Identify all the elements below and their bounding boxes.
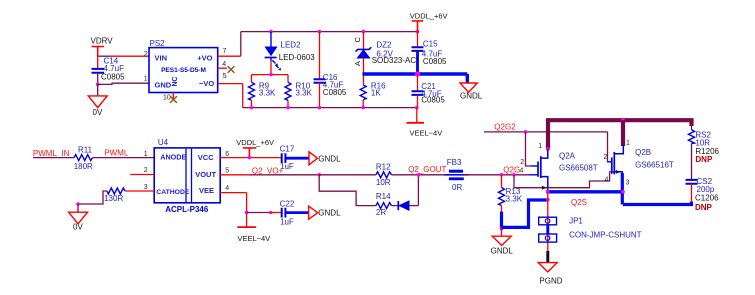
svg-text:3.3K: 3.3K xyxy=(296,89,313,98)
wire Q2B source thick xyxy=(621,173,624,205)
wire 130R to ground xyxy=(78,191,107,204)
svg-text:2: 2 xyxy=(144,51,148,58)
opto gate driver U4 ACPL-P346 xyxy=(154,138,220,214)
wire U4 pin2 stub xyxy=(130,174,154,176)
ground GNDL under R13 xyxy=(491,229,514,256)
svg-text:1: 1 xyxy=(144,151,148,158)
svg-text:C0805: C0805 xyxy=(421,96,445,105)
node R13 junction xyxy=(500,173,504,177)
svg-text:2R: 2R xyxy=(376,208,386,217)
wire Q2_VO to R12 xyxy=(319,174,376,176)
node Q2S left junction xyxy=(546,190,550,194)
svg-text:2: 2 xyxy=(144,167,148,174)
LED LED2 xyxy=(265,32,316,71)
svg-text:PGND: PGND xyxy=(539,277,562,286)
svg-text:Q2_VO+: Q2_VO+ xyxy=(252,166,284,175)
svg-text:3.3K: 3.3K xyxy=(506,195,523,204)
wire top VDDL rail xyxy=(241,31,418,33)
svg-text:R12: R12 xyxy=(376,162,391,171)
svg-text:NC: NC xyxy=(172,76,179,86)
svg-text:0V: 0V xyxy=(73,223,83,232)
svg-text:JP1: JP1 xyxy=(569,217,583,226)
svg-text:PES1-S5-D5-M: PES1-S5-D5-M xyxy=(161,67,206,74)
svg-text:VEEL−4V: VEEL−4V xyxy=(410,128,443,137)
svg-text:4: 4 xyxy=(222,61,226,68)
DC/DC module PS2 PES1-S5-D5-M xyxy=(149,39,218,92)
wire thick drain rail xyxy=(548,120,692,126)
svg-text:6: 6 xyxy=(225,151,229,158)
svg-text:GS66508T: GS66508T xyxy=(559,163,598,172)
wire PWML_IN to R11 xyxy=(33,157,74,159)
wire PS2 GND to C14 xyxy=(98,83,149,84)
node C14/GND junction xyxy=(96,83,100,87)
svg-text:1: 1 xyxy=(144,76,148,83)
node C16 rail junction xyxy=(318,106,322,110)
svg-text:130R: 130R xyxy=(104,194,123,203)
node R10 rail junction xyxy=(286,106,290,110)
svg-text:LED-0603: LED-0603 xyxy=(279,53,316,62)
ground GNDL top xyxy=(460,83,483,101)
pin 10 no-connect stub and X xyxy=(170,93,177,103)
node riser junction xyxy=(417,173,421,177)
svg-text:DNP: DNP xyxy=(695,203,713,212)
node C16 rail junction xyxy=(318,30,322,34)
wire Q2S thick rail xyxy=(546,190,623,193)
svg-text:VDDL_+6V: VDDL_+6V xyxy=(236,138,274,147)
svg-text:0R: 0R xyxy=(452,183,462,192)
power VEEL-4V top section xyxy=(407,108,443,138)
svg-text:SOD323-AC: SOD323-AC xyxy=(372,56,417,65)
capacitor CS2 200p snubber xyxy=(686,177,720,212)
capacitor C22 1uF xyxy=(280,200,295,227)
wire U4 pin4 VEE xyxy=(220,193,246,228)
resistor RS2 10R snubber xyxy=(689,124,720,180)
svg-text:C0805: C0805 xyxy=(101,73,125,82)
svg-text:1K: 1K xyxy=(371,89,381,98)
ferrite bead FB3 0R xyxy=(444,158,468,192)
svg-text:C1206: C1206 xyxy=(695,194,719,203)
resistor R10 3.3K xyxy=(285,82,313,108)
wire VEEL bottom rail xyxy=(243,107,417,109)
capacitor C16 4.7uF xyxy=(314,32,347,108)
capacitor C17 1uF xyxy=(280,145,295,172)
arrow on Q2B source sense xyxy=(616,170,621,174)
diode at R14 xyxy=(392,201,419,210)
wire R11 to U4 pin1 xyxy=(93,157,155,159)
svg-text:PWML: PWML xyxy=(104,148,129,157)
node Q2S right junction xyxy=(621,190,625,194)
wire LED to R9/R10 bus xyxy=(270,61,272,74)
svg-text:C: C xyxy=(353,37,362,43)
svg-text:GNDL: GNDL xyxy=(491,247,514,256)
node Q2B drain junction xyxy=(621,118,625,122)
ground GNDL arrow lower xyxy=(309,206,341,219)
svg-text:7: 7 xyxy=(223,48,227,55)
svg-text:Q2A: Q2A xyxy=(559,152,576,161)
power VDDL_+6V top xyxy=(410,12,448,32)
wire Q2G2 to Q2A pin2 xyxy=(526,132,532,166)
wire Q2G2 xyxy=(484,131,608,133)
node Q2_VO branch junction xyxy=(317,173,321,177)
resistor R12 10R xyxy=(376,162,392,187)
svg-text:5: 5 xyxy=(223,73,227,80)
svg-text:A: A xyxy=(353,61,362,66)
resistor R14 2R xyxy=(376,192,392,217)
svg-text:Q2G: Q2G xyxy=(503,166,520,175)
svg-text:CON-JMP-CSHUNT: CON-JMP-CSHUNT xyxy=(569,231,642,240)
node 0V junction xyxy=(76,202,80,206)
wire U4 pin5 VOUT xyxy=(220,174,250,176)
svg-text:VIN: VIN xyxy=(155,53,168,62)
node JP1 branch junction xyxy=(546,198,550,202)
wire C22 to GNDL arrow xyxy=(285,211,308,214)
svg-text:1: 1 xyxy=(538,143,542,150)
transistor Q2A GS66508T xyxy=(529,149,598,192)
node Q2A drain junction xyxy=(546,147,550,151)
wire Q2G2 to Q2B pin2 xyxy=(608,132,609,162)
power VEEL-4V mini xyxy=(237,227,270,243)
svg-text:4: 4 xyxy=(605,177,609,184)
svg-text:2: 2 xyxy=(604,154,608,161)
transistor Q2B GS66516T xyxy=(608,145,674,179)
svg-text:R11: R11 xyxy=(78,145,93,154)
wire U4 pin6 VCC xyxy=(220,157,281,159)
node GNDL drop junction xyxy=(500,227,504,231)
ground GNDL arrow upper xyxy=(309,152,341,165)
svg-text:DNP: DNP xyxy=(695,155,713,164)
wire -VO pin5 down to VEEL rail xyxy=(218,83,243,85)
wire +VO pin7 to top rail xyxy=(218,55,241,57)
svg-text:GNDL: GNDL xyxy=(460,92,483,101)
wire snubber return thick xyxy=(623,202,692,205)
svg-text:0V: 0V xyxy=(93,108,103,117)
svg-text:+VO: +VO xyxy=(197,53,212,62)
svg-text:R14: R14 xyxy=(376,192,391,201)
svg-text:C17: C17 xyxy=(280,145,295,154)
ground 0V lower xyxy=(69,204,88,232)
jumper JP1 CON-JMP-CSHUNT xyxy=(539,192,642,251)
svg-text:C22: C22 xyxy=(280,200,295,209)
svg-text:LED2: LED2 xyxy=(281,40,302,49)
wire thick blue R13 to JP1 xyxy=(502,200,548,227)
svg-text:CATHODE: CATHODE xyxy=(156,189,190,196)
svg-text:Q2B: Q2B xyxy=(635,148,651,157)
svg-text:3: 3 xyxy=(144,184,148,191)
node kelvin junction xyxy=(512,173,516,177)
svg-text:10: 10 xyxy=(163,94,171,101)
node VDDL rail junction xyxy=(416,30,420,34)
svg-text:GND: GND xyxy=(155,81,172,90)
svg-text:VDRV: VDRV xyxy=(91,36,114,45)
node R16 rail junction xyxy=(361,106,365,110)
svg-text:GNDL: GNDL xyxy=(318,209,341,218)
svg-text:5: 5 xyxy=(225,168,229,175)
svg-text:3.3K: 3.3K xyxy=(259,89,276,98)
ground PGND xyxy=(538,251,562,286)
svg-text:4: 4 xyxy=(225,185,229,192)
power VDDL_+6V mini xyxy=(236,138,274,158)
power VDRV xyxy=(91,36,114,56)
svg-text:VDDL_+6V: VDDL_+6V xyxy=(410,12,448,21)
wire GNDL thick rail xyxy=(362,74,467,83)
resistor 130R xyxy=(104,188,125,203)
svg-text:ANODE: ANODE xyxy=(160,153,186,162)
node VCC/VDDL junction xyxy=(248,156,251,159)
ground 0V xyxy=(88,84,107,117)
wire R13 thick GNDL drop xyxy=(500,212,503,229)
node R9 rail junction xyxy=(250,106,254,110)
capacitor C15 4.7uF xyxy=(412,32,448,74)
svg-text:GNDL: GNDL xyxy=(318,154,341,163)
resistor R11 180R xyxy=(74,145,93,171)
svg-text:VOUT: VOUT xyxy=(195,170,216,179)
svg-text:C0805: C0805 xyxy=(323,88,347,97)
svg-text:PWML_IN: PWML_IN xyxy=(33,149,70,158)
node LED rail junction xyxy=(269,30,273,34)
svg-text:3: 3 xyxy=(626,180,630,187)
wire VDRV to PS2 VIN xyxy=(98,55,110,57)
resistor R13 3.3K xyxy=(499,175,523,212)
pin 4 no-connect stub and X xyxy=(218,66,235,73)
svg-text:200p: 200p xyxy=(697,185,715,194)
svg-text:10R: 10R xyxy=(376,178,391,187)
node C21/VEEL junction xyxy=(415,106,419,110)
zener diode DZ2 6.2V xyxy=(353,32,416,85)
svg-text:VEEL−4V: VEEL−4V xyxy=(238,234,271,243)
svg-text:C0805: C0805 xyxy=(423,57,447,66)
svg-text:VEE: VEE xyxy=(199,186,214,195)
node VEE/C22 junction xyxy=(245,211,249,215)
wire C17 to GNDL arrow xyxy=(285,157,309,160)
node LED bus junction xyxy=(269,73,273,77)
wire R12 to FB3 xyxy=(392,174,448,176)
svg-text:VCC: VCC xyxy=(198,153,214,162)
node Q2G2 junction xyxy=(524,130,528,134)
svg-text:Q2G2: Q2G2 xyxy=(494,122,516,131)
svg-text:180R: 180R xyxy=(74,162,93,171)
resistor R9 3.3K xyxy=(249,82,277,108)
svg-text:Q2_GOUT: Q2_GOUT xyxy=(408,165,446,174)
capacitor C21 4.7uF xyxy=(412,74,446,108)
capacitor C14 xyxy=(92,56,126,84)
svg-text:C15: C15 xyxy=(423,40,438,49)
svg-text:1: 1 xyxy=(626,140,630,147)
arrow on Q2A source sense xyxy=(542,186,547,190)
wire VEE to C22 xyxy=(247,212,271,214)
svg-text:4: 4 xyxy=(520,167,524,174)
wire Q2B drain drop xyxy=(621,120,625,146)
svg-text:1uF: 1uF xyxy=(280,218,294,227)
svg-text:U4: U4 xyxy=(158,138,169,147)
svg-text:DZ2: DZ2 xyxy=(376,40,392,49)
wire diode riser to Q2_GOUT xyxy=(417,175,419,206)
wire kelvin source sense xyxy=(514,172,616,188)
wire R14 branch path xyxy=(319,175,376,206)
svg-text:2: 2 xyxy=(520,159,524,166)
wire FB3 to Q2A gate xyxy=(464,174,529,176)
svg-text:Q2S: Q2S xyxy=(571,198,587,207)
resistor R16 1K xyxy=(360,82,386,108)
svg-text:FB3: FB3 xyxy=(447,158,462,167)
svg-text:−VO: −VO xyxy=(199,79,214,88)
svg-text:GS66516T: GS66516T xyxy=(635,160,674,169)
svg-text:ACPL-P346: ACPL-P346 xyxy=(165,205,209,214)
wire U4 pin3 to 130R xyxy=(125,190,154,192)
node GNDL/C15/C21 junction xyxy=(415,71,420,76)
node DZ2 rail junction xyxy=(362,30,366,34)
